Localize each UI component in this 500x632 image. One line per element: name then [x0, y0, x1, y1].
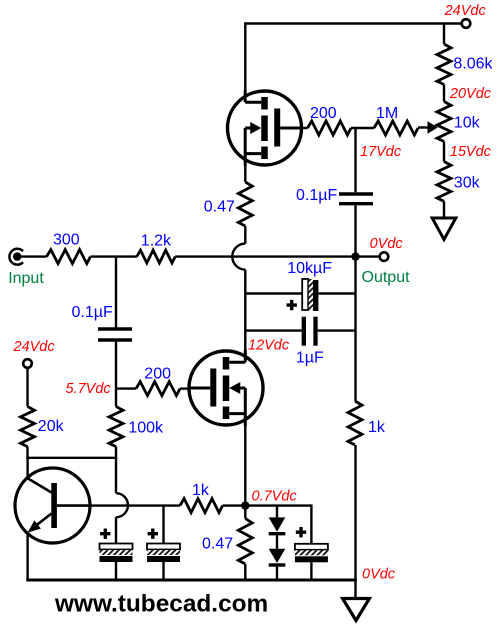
wire: bottom ground rail — [26, 579, 357, 582]
wire: 24Vdc rail to 8.06k — [443, 24, 445, 45]
resistor 0.47 (lower source) — [238, 519, 252, 565]
resistor 1k (base) — [180, 499, 223, 513]
transistor Q1 NPN — [15, 458, 90, 580]
label 100k — [128, 420, 164, 437]
svg-text:5.7Vdc: 5.7Vdc — [66, 381, 112, 397]
wire: 10k to 30k — [443, 142, 445, 162]
wire: base node down to C2 — [162, 506, 164, 544]
wire: jack to 300 — [19, 255, 47, 257]
resistor 20k — [21, 407, 35, 447]
wire: terminal to 20k — [26, 368, 28, 407]
wire: 0.47 down to hop over output rail — [232, 226, 245, 352]
resistor 8.06k — [437, 44, 451, 85]
diode D1 — [269, 506, 286, 536]
diode D2 — [269, 535, 286, 580]
label 5.7Vdc node — [66, 381, 112, 397]
resistor 1k (output load) — [348, 401, 362, 445]
label 30k — [454, 174, 481, 191]
svg-text:0.47: 0.47 — [204, 199, 235, 216]
plus sign 10kuF — [287, 300, 297, 310]
svg-text:0Vdc: 0Vdc — [370, 236, 404, 252]
svg-text:0.1µF: 0.1µF — [72, 304, 113, 321]
label 0.7Vdc node — [252, 489, 298, 505]
wire: junction to diodes and C3 — [245, 506, 311, 544]
label 0.47 (upper) — [204, 199, 235, 216]
resistor 30k — [437, 162, 451, 202]
wire: 100k to bias rail — [115, 447, 117, 458]
label 1.2k — [141, 233, 172, 250]
label 20k — [38, 418, 65, 435]
capacitor electrolytic C2 (base bypass) — [147, 544, 180, 581]
svg-text:17Vdc: 17Vdc — [360, 144, 402, 160]
label Input — [8, 270, 44, 287]
label 1k (load) — [368, 419, 386, 436]
svg-text:1µF: 1µF — [296, 350, 324, 367]
wire: 10kuF to output drop — [318, 292, 355, 294]
wire: input node down to 0.1uF coupling cap — [115, 257, 117, 328]
node 0.7Vdc junction dot — [241, 501, 249, 509]
label 200 (lower) — [144, 365, 171, 382]
resistor 0.47 (upper source) — [238, 182, 252, 226]
svg-text:24Vdc: 24Vdc — [13, 339, 56, 355]
svg-text:20Vdc: 20Vdc — [449, 86, 492, 102]
wire: junction down to 0.47 — [244, 506, 246, 519]
capacitor electrolytic C3 (0.7V bypass) — [295, 544, 328, 580]
label 0.1uF (left) — [72, 304, 113, 321]
wire: 5.7Vdc node down to 100k — [115, 389, 117, 407]
label Output — [362, 269, 411, 286]
wire: upper MOSFET source to 0.47 — [244, 166, 246, 182]
wire: lower MOSFET source to 0.7Vdc junction — [244, 426, 246, 506]
label www.tubecad.com — [54, 591, 268, 618]
wiper arrow of 10k pot — [418, 121, 438, 133]
wire: 200 to lower gate — [180, 387, 190, 389]
svg-text:1M: 1M — [376, 105, 398, 122]
plus sign C3 — [296, 527, 306, 537]
wire: 1uF to output drop — [318, 329, 356, 331]
wire: junction to output terminal — [356, 255, 380, 257]
potentiometer 10k — [437, 102, 451, 142]
label 0Vdc (ground rail) — [362, 567, 396, 583]
label 20Vdc node — [449, 86, 492, 102]
svg-text:15Vdc: 15Vdc — [450, 144, 492, 160]
label 24Vdc (left supply) — [13, 339, 56, 355]
wire: 0.1uF to 5.7Vdc node — [115, 342, 117, 389]
svg-text:24Vdc: 24Vdc — [444, 3, 487, 19]
capacitor electrolytic C1 (bias rail bypass) — [100, 544, 133, 581]
resistor 1M — [374, 121, 418, 135]
terminal: Output — [380, 252, 389, 261]
wire: 200 to 1M — [351, 127, 374, 129]
plus sign C1 — [100, 529, 110, 539]
wire: bias rail (20k/100k/collector) — [26, 457, 117, 459]
wire: Q1 base to 1k — [90, 504, 180, 506]
wire: 8.06k to 10k pot — [443, 85, 445, 102]
node output junction dot — [351, 252, 359, 260]
wire: 12V node to 10kuF — [245, 292, 302, 294]
label 0Vdc (output) — [370, 236, 404, 252]
wire: rail to bottom ground symbol — [354, 580, 356, 599]
plus sign C2 — [148, 529, 158, 539]
wire: 1k to ground rail — [354, 445, 356, 580]
wire: 1k to 0.7Vdc node — [223, 504, 246, 506]
ground (right ladder) — [432, 218, 456, 240]
label 10kuF — [287, 260, 332, 277]
svg-text:1k: 1k — [368, 419, 386, 436]
svg-text:300: 300 — [53, 232, 80, 249]
label 10k — [454, 115, 481, 132]
svg-text:1k: 1k — [192, 482, 210, 499]
wire: top supply rail — [245, 24, 461, 92]
label 1M — [376, 105, 398, 122]
wire: 0.47 to ground rail — [244, 564, 246, 580]
capacitor 1uF — [304, 317, 316, 346]
svg-text:12Vdc: 12Vdc — [248, 337, 290, 353]
svg-text:30k: 30k — [454, 174, 481, 191]
svg-text:0.1µF: 0.1µF — [296, 187, 337, 204]
wire: 20k to bias rail — [26, 447, 28, 458]
svg-text:200: 200 — [310, 105, 337, 122]
label 8.06k — [453, 56, 493, 73]
label 0.1uF (right) — [296, 187, 337, 204]
svg-text:0.7Vdc: 0.7Vdc — [252, 489, 298, 505]
label 200 (upper) — [310, 105, 337, 122]
wire: 0.1uF to output node — [354, 205, 356, 256]
wire: 30k to ground — [443, 201, 445, 218]
wire: upper gate to 200 — [302, 127, 308, 129]
resistor 1.2k — [137, 250, 175, 263]
label 15Vdc node — [450, 144, 492, 160]
label 300 — [53, 232, 80, 249]
label 17Vdc node — [360, 144, 402, 160]
resistor 100k — [109, 407, 123, 447]
svg-text:Input: Input — [8, 270, 44, 287]
svg-text:0Vdc: 0Vdc — [362, 567, 396, 583]
wire: node to 200 (lower) — [116, 387, 136, 389]
ground (bottom) — [343, 599, 370, 621]
op... upper MOSFET Q2 — [228, 90, 302, 166]
terminal: 24Vdc left — [23, 359, 32, 368]
capacitor electrolytic 10kuF — [302, 279, 318, 311]
svg-text:10kµF: 10kµF — [287, 260, 332, 277]
input jack terminal — [9, 249, 23, 265]
label 24Vdc (top right supply) — [444, 3, 487, 19]
label 0.47 (lower) — [202, 535, 233, 552]
resistor 200 (upper gate stopper) — [308, 121, 352, 135]
svg-text:1.2k: 1.2k — [141, 233, 172, 250]
transistor lower MOSFET Q3 — [189, 350, 263, 426]
wire: 1.2k to output node (passes under hop) — [175, 255, 355, 257]
svg-text:20k: 20k — [38, 418, 65, 435]
label 1k (base resistor) — [192, 482, 210, 499]
wire: 300 to input node — [90, 255, 136, 257]
resistor 200 (lower gate stopper) — [136, 382, 180, 396]
svg-text:www.tubecad.com: www.tubecad.com — [54, 591, 268, 618]
wire: gate bias node down to 0.1uF — [354, 128, 356, 192]
svg-text:0.47: 0.47 — [202, 535, 233, 552]
terminal: 24Vdc top right — [462, 19, 471, 28]
capacitor 0.1uF (input coupling) — [98, 329, 132, 340]
svg-text:8.06k: 8.06k — [453, 56, 493, 73]
wire: 12V node to 1uF — [245, 329, 301, 331]
svg-text:200: 200 — [144, 365, 171, 382]
wire: output down to 1k — [354, 257, 356, 401]
svg-text:10k: 10k — [454, 115, 481, 132]
capacitor 0.1uF (gate bootstrap) — [339, 194, 373, 204]
svg-text:100k: 100k — [128, 420, 164, 437]
svg-text:Output: Output — [362, 269, 411, 286]
resistor 300 — [47, 250, 91, 264]
wire: bias rail down to first electrolytic (with hop) — [116, 458, 128, 544]
label 1uF — [296, 350, 324, 367]
label 12Vdc node — [248, 337, 290, 353]
